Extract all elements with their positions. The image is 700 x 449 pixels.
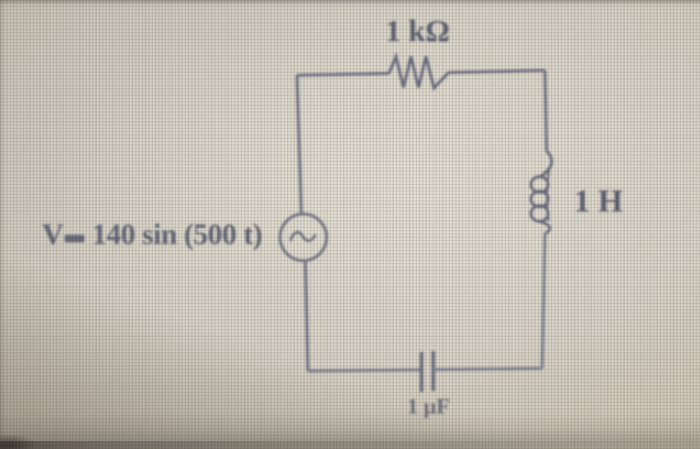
AC source V circle [280, 214, 327, 261]
wire: left lower vertical segment [305, 261, 308, 372]
wire: top-right horizontal segment [449, 70, 546, 72]
capacitor C right plate [432, 351, 435, 391]
wire: right upper vertical segment [545, 70, 547, 151]
resistor R (1 kOhm) zigzag [389, 57, 449, 89]
label: blurred equals bar [65, 235, 85, 243]
capacitor C left plate [420, 352, 423, 392]
wire: top-left horizontal segment [297, 73, 389, 75]
wire: right lower vertical segment [542, 233, 545, 369]
wire: left upper vertical segment [297, 75, 301, 214]
wire: bottom-right horizontal segment [433, 368, 542, 369]
wire: bottom-left horizontal segment [308, 370, 422, 371]
AC source sine symbol [291, 232, 316, 241]
inductor L (1 H) coil [531, 151, 552, 233]
